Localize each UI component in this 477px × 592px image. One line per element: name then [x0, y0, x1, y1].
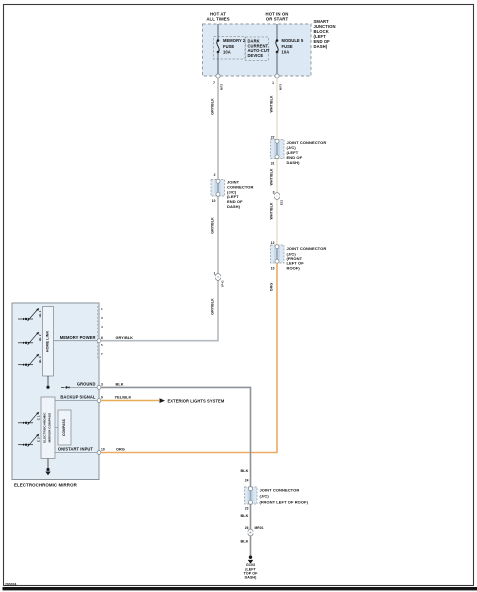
svg-text:DASH): DASH)	[227, 204, 241, 209]
svg-text:ORG: ORG	[116, 448, 125, 452]
svg-text:ELECTROCHROMIC: ELECTROCHROMIC	[43, 412, 47, 443]
svg-text:10: 10	[212, 199, 216, 203]
svg-text:JOINT CONNECTOR: JOINT CONNECTOR	[260, 488, 300, 493]
joint connector JC3 (FRONT LEFT OF ROOF) right wire	[271, 245, 285, 264]
switch S4	[18, 412, 39, 425]
svg-text:5: 5	[101, 343, 103, 347]
JC1 label	[287, 140, 327, 165]
inline connector on left wire	[215, 274, 220, 281]
smart junction block SJB	[203, 24, 312, 76]
svg-text:BACKUP SIGNAL: BACKUP SIGNAL	[60, 395, 96, 400]
svg-text:MF3: MF3	[279, 84, 283, 90]
svg-text:BLK: BLK	[240, 514, 248, 518]
svg-text:ELECTROCHROMIC MIRROR: ELECTROCHROMIC MIRROR	[14, 483, 78, 488]
svg-text:MEMORY 2: MEMORY 2	[223, 38, 246, 43]
wire: fuse F2 to block edge	[276, 52, 278, 76]
svg-text:BLK: BLK	[240, 469, 248, 473]
JC3 label	[287, 246, 327, 270]
svg-text:12: 12	[271, 241, 275, 245]
JC2 label	[227, 179, 253, 209]
svg-text:BLK: BLK	[240, 540, 248, 544]
svg-text:FUSE: FUSE	[223, 44, 234, 49]
connector bump at block exit right	[275, 74, 279, 78]
svg-text:WHT/BLK: WHT/BLK	[270, 95, 274, 112]
backup signal internal wire	[55, 400, 99, 402]
svg-text:2: 2	[214, 173, 216, 177]
svg-text:3: 3	[101, 383, 103, 387]
svg-text:(FRONT LEFT OF ROOF): (FRONT LEFT OF ROOF)	[260, 500, 309, 505]
svg-text:JOINT CONNECTOR: JOINT CONNECTOR	[287, 246, 327, 251]
svg-text:GROUND: GROUND	[77, 382, 96, 387]
mirror pin bump on/start input	[97, 451, 101, 455]
svg-text:MIRROR COMPASS: MIRROR COMPASS	[48, 413, 52, 443]
wire BLK to ground	[101, 387, 251, 556]
home link ground stub	[47, 376, 49, 386]
inline connector on right wire	[274, 193, 279, 200]
svg-text:MEMORY POWER: MEMORY POWER	[60, 335, 96, 340]
svg-text:GRY/BLK: GRY/BLK	[116, 336, 134, 340]
svg-text:OR START: OR START	[266, 17, 289, 22]
wire ORG from JC3 down and to mirror	[99, 263, 277, 452]
svg-text:WHT/BLK: WHT/BLK	[270, 168, 274, 185]
switch S3	[18, 354, 39, 367]
svg-text:HL 2: HL 2	[38, 334, 42, 341]
compass ground stub	[47, 459, 49, 469]
svg-text:C 1: C 1	[36, 415, 40, 420]
dark current auto-cut device box	[246, 37, 269, 61]
svg-text:4: 4	[101, 325, 103, 329]
compass link	[55, 427, 58, 429]
svg-text:3: 3	[273, 191, 275, 195]
wire YEL/BLK to exterior lights	[101, 400, 159, 402]
svg-text:31: 31	[271, 162, 275, 166]
joint connector JC4 (FRONT LEFT OF ROOF) ground wire	[245, 487, 258, 505]
header HOT AT ALL TIMES	[206, 11, 229, 21]
svg-text:IP-G: IP-G	[221, 280, 225, 287]
svg-text:26: 26	[245, 526, 249, 530]
svg-text:3: 3	[101, 316, 103, 320]
electrochromic mirror compass box	[41, 397, 55, 459]
header HOT IN ON OR START	[266, 11, 289, 21]
switch S2	[18, 332, 39, 345]
svg-text:WHT/BLK: WHT/BLK	[270, 202, 274, 219]
svg-text:GRY/BLK: GRY/BLK	[211, 217, 215, 234]
svg-text:MODULE 5: MODULE 5	[282, 38, 304, 43]
ground G103	[249, 556, 252, 559]
svg-text:DASH): DASH)	[314, 44, 328, 49]
joint connector JC1 (LEFT END OF DASH) right wire	[271, 139, 285, 159]
wire WHT right vertical from block to JC3	[276, 78, 278, 245]
svg-text:C 2: C 2	[36, 437, 40, 442]
svg-text:MR01: MR01	[255, 526, 264, 530]
svg-text:MF2: MF2	[220, 84, 224, 90]
fuse F1 MEMORY 2 FUSE 10A	[217, 39, 220, 42]
wire: feed into fuse F2	[276, 24, 278, 40]
svg-text:23: 23	[245, 506, 249, 510]
inline connector on ground wire	[248, 529, 253, 536]
svg-text:COMPASS: COMPASS	[62, 418, 66, 436]
svg-text:ON/START INPUT: ON/START INPUT	[58, 447, 94, 452]
svg-text:1: 1	[101, 307, 103, 311]
JC4 label	[260, 488, 309, 505]
svg-text:ALL TIMES: ALL TIMES	[206, 17, 229, 22]
home link box	[43, 307, 54, 377]
fuse F2 MODULE 5 FUSE 10A	[276, 39, 279, 42]
mirror pin strip numbers	[101, 307, 103, 356]
on/start input internal wire	[55, 452, 99, 454]
svg-text:HL 1: HL 1	[38, 310, 42, 317]
connector bump at block exit left	[216, 74, 220, 78]
svg-text:BLK: BLK	[116, 383, 124, 387]
svg-text:ORG: ORG	[270, 283, 274, 292]
svg-text:1: 1	[272, 81, 274, 85]
svg-text:7: 7	[213, 81, 215, 85]
dashed box around memory fuse	[214, 37, 246, 60]
switch S5	[18, 434, 39, 447]
svg-text:EXTERIOR LIGHTS SYSTEM: EXTERIOR LIGHTS SYSTEM	[168, 398, 225, 403]
svg-text:E31: E31	[280, 199, 284, 205]
mirror pin bump ground	[97, 386, 101, 390]
joint connector JC2 (LEFT END OF DASH) left wire	[211, 179, 225, 196]
electrochromic mirror box	[12, 303, 99, 480]
svg-text:10A: 10A	[223, 50, 231, 55]
svg-text:GRY/BLK: GRY/BLK	[211, 298, 215, 315]
svg-text:7: 7	[101, 352, 103, 356]
svg-text:DASH): DASH)	[245, 576, 257, 580]
svg-text:10: 10	[271, 267, 275, 271]
mirror pin bump memory power	[97, 339, 101, 343]
svg-text:10: 10	[101, 448, 105, 452]
svg-text:(J/C): (J/C)	[260, 494, 270, 499]
mirror pin strip dashes	[97, 306, 99, 360]
wire GRY left vertical from block to mirror	[99, 78, 218, 341]
svg-text:24: 24	[245, 478, 249, 482]
svg-text:DEVICE: DEVICE	[248, 53, 264, 58]
svg-text:ROOF): ROOF)	[287, 265, 301, 270]
svg-text:HL 3: HL 3	[38, 356, 42, 363]
arrow to exterior lights system	[160, 398, 166, 403]
memory power output wire internal	[54, 340, 100, 342]
wire: fuse F1 to block edge	[217, 52, 219, 76]
ground internal wire	[70, 386, 100, 388]
svg-text:9: 9	[101, 396, 103, 400]
svg-text:YEL/BLK: YEL/BLK	[115, 396, 132, 400]
switch S1	[18, 308, 39, 321]
wire: feed into fuse F1	[217, 24, 219, 40]
svg-text:1: 1	[214, 272, 216, 276]
svg-text:6: 6	[101, 336, 103, 340]
svg-text:DASH): DASH)	[287, 160, 301, 165]
svg-text:10A: 10A	[282, 50, 290, 55]
mirror pin bump backup signal	[97, 399, 101, 403]
ground dumbbell symbol	[61, 386, 70, 388]
svg-text:GRY/BLK: GRY/BLK	[211, 98, 215, 115]
SJB label	[314, 19, 336, 49]
svg-text:200024: 200024	[5, 582, 16, 586]
svg-text:FUSE: FUSE	[282, 44, 293, 49]
bottom rule	[3, 587, 477, 590]
svg-text:22: 22	[271, 136, 275, 140]
svg-text:HOME LINK: HOME LINK	[45, 331, 49, 353]
compass box	[58, 410, 71, 445]
